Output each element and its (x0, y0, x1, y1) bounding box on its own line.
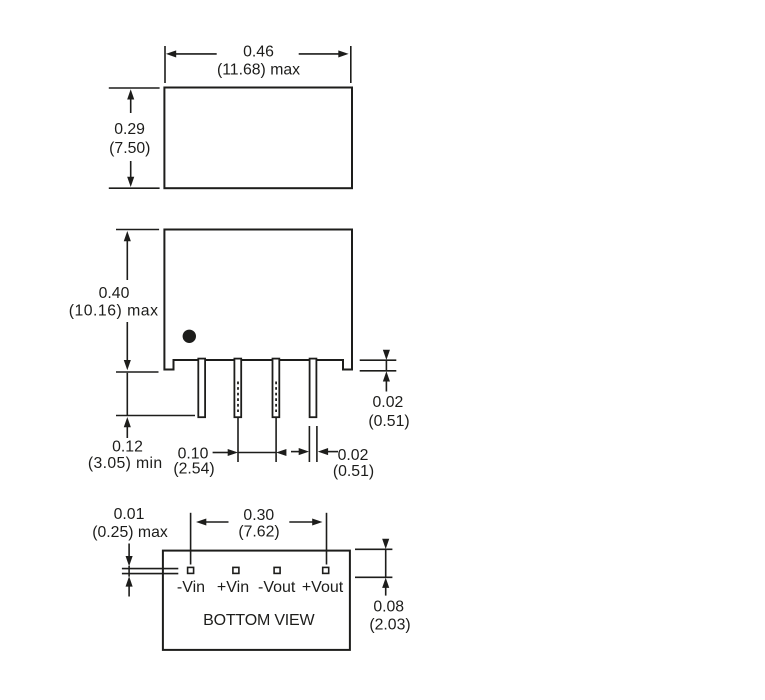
pin span right arrow (289, 518, 322, 525)
pin width left arrow (291, 448, 309, 455)
width dimension right arrow (299, 50, 349, 57)
pin span extension line left (190, 513, 192, 565)
height dimension up arrow (127, 89, 134, 113)
svg-text:(0.51): (0.51) (368, 413, 409, 430)
body height dimension down arrow (124, 322, 131, 370)
pin 3 (side view) (273, 359, 280, 418)
pin width right arrow (318, 448, 338, 455)
svg-text:0.01: 0.01 (114, 506, 145, 523)
bottom view pin 1 pad (188, 567, 194, 573)
standoff height connector (385, 360, 387, 371)
svg-text:(7.62): (7.62) (238, 523, 279, 540)
svg-text:(0.51): (0.51) (333, 463, 374, 480)
standoff height down arrowhead (383, 350, 390, 360)
height dimension extension line bottom (109, 187, 160, 189)
side view body outline with standoff feet (164, 230, 352, 370)
height dimension down arrow (127, 161, 134, 187)
height dimension extension line top (109, 87, 160, 89)
svg-text:(0.25) max: (0.25) max (92, 524, 168, 541)
bottom view pin 4 pad (323, 567, 329, 573)
svg-text:0.02: 0.02 (373, 394, 404, 411)
pad offset extension line upper (355, 548, 392, 550)
pin width extension line right (316, 426, 318, 462)
pad offset up arrow (382, 578, 389, 596)
svg-text:+Vin: +Vin (217, 579, 249, 596)
svg-text:0.30: 0.30 (243, 507, 274, 524)
pitch dimension right arrow (276, 449, 286, 456)
pin 3 center line extended (275, 417, 277, 462)
pin 4 (side view) (310, 359, 317, 418)
pitch dimension line between centers (238, 452, 276, 454)
svg-text:+Vout: +Vout (302, 579, 344, 596)
top view body rectangle (164, 88, 352, 189)
pin span left arrow (196, 518, 229, 525)
pin 3 hidden center line (275, 382, 277, 413)
svg-text:(2.03): (2.03) (369, 616, 410, 633)
svg-text:-Vin: -Vin (177, 579, 205, 596)
standoff line upper (122, 568, 178, 570)
lead length dimension connector line (126, 373, 128, 415)
svg-text:0.46: 0.46 (243, 44, 274, 61)
bottom view body rectangle (163, 551, 350, 650)
svg-text:(7.50): (7.50) (109, 140, 150, 157)
svg-text:0.12: 0.12 (112, 438, 143, 455)
standoff dimension up arrow (126, 576, 133, 596)
svg-text:(11.68) max: (11.68) max (217, 62, 300, 79)
pin end extension line (116, 415, 195, 417)
pin 1 indicator dot (183, 330, 196, 343)
pin width extension line left (308, 426, 310, 462)
width dimension left arrow (166, 50, 217, 57)
standoff height extension line upper (360, 359, 397, 361)
pad offset extension line lower (355, 576, 392, 578)
pin 1 (side view) (198, 359, 205, 418)
svg-text:-Vout: -Vout (258, 579, 296, 596)
svg-text:(2.54): (2.54) (173, 461, 214, 478)
pin span extension line right (326, 513, 328, 565)
pad offset connector (385, 549, 387, 577)
pin 2 (side view) (234, 359, 241, 418)
standoff height extension line lower (360, 370, 397, 372)
bottom view pin 2 pad (233, 567, 239, 573)
lead length up arrow (124, 417, 131, 438)
standoff tick mark (128, 566, 130, 577)
svg-text:0.29: 0.29 (114, 121, 145, 138)
pad offset down arrowhead (382, 539, 389, 549)
standoff line lower (122, 573, 178, 575)
body height dimension up arrow (124, 231, 131, 280)
svg-text:BOTTOM VIEW: BOTTOM VIEW (203, 612, 315, 629)
pin 2 center line extended (237, 417, 239, 462)
width dimension extension line left (164, 46, 166, 83)
svg-text:0.02: 0.02 (338, 447, 369, 464)
bottom view pin 3 pad (274, 567, 280, 573)
svg-text:(10.16) max: (10.16) max (69, 303, 159, 320)
svg-text:(3.05) min: (3.05) min (88, 455, 163, 472)
width dimension extension line right (350, 46, 352, 83)
seating plane extension line (116, 371, 159, 373)
standoff height up arrow (383, 371, 390, 391)
standoff dimension down arrow (126, 544, 133, 567)
svg-text:0.40: 0.40 (99, 285, 130, 302)
pin 2 hidden center line (237, 382, 239, 413)
svg-text:0.08: 0.08 (373, 598, 404, 615)
pitch dimension left arrow (213, 449, 238, 456)
body height dimension extension line top (116, 229, 159, 231)
